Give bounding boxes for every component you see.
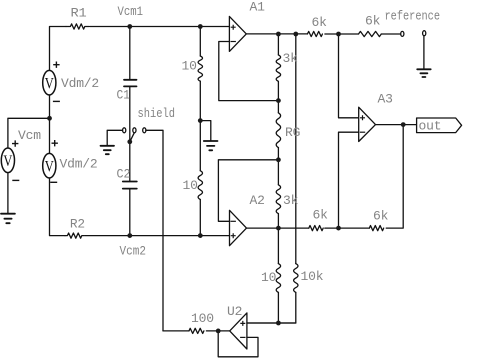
svg-text:6k: 6k [313, 208, 329, 223]
node bottom-rail 10-column junction dot [198, 233, 203, 238]
wire top rail to A1 + input [90, 26, 229, 28]
wire bottom rail to A2 + input [85, 235, 230, 237]
node Vcm2 junction dot [127, 233, 132, 238]
A3 plus input mark [360, 115, 365, 120]
node A3-plus rail junction dot [336, 32, 341, 37]
wire A3 output [376, 124, 417, 126]
wire U2 output row with 100 [163, 330, 189, 332]
A2 minus input mark [231, 220, 236, 222]
wire 100 to U2 tip [206, 330, 229, 332]
wire 3k to A2 output rail [277, 214, 279, 228]
svg-text:A3: A3 [378, 92, 393, 107]
A2 plus input mark [231, 233, 236, 238]
node A1 feedback junction dot [276, 98, 281, 103]
svg-text:10: 10 [182, 58, 197, 73]
resistor 6k (A1 output) [307, 31, 322, 36]
wire A2 feedback loop [218, 160, 278, 222]
wire RG to lower node [277, 148, 279, 185]
op-amp U2 (left pointing) [230, 313, 247, 349]
ground (shield switch) [101, 146, 115, 154]
svg-text:Vcm: Vcm [18, 128, 41, 143]
node 10-column top junction dot [198, 24, 203, 29]
node A2-output 3k junction dot [276, 226, 281, 231]
wire to A3 plus node [325, 33, 359, 35]
A3 minus input mark [360, 131, 365, 133]
wire to reference terminal [381, 33, 400, 35]
resistor 10 (upper left) [198, 56, 202, 81]
svg-text:10: 10 [261, 270, 276, 285]
wire C2 to bottom rail [129, 190, 131, 236]
wire second column (A1 out to U2) top [295, 34, 297, 264]
node U2 output junction dot [216, 329, 221, 334]
wire A3 plus input column [339, 34, 359, 118]
resistor R1 [66, 24, 89, 29]
svg-text:RG: RG [285, 125, 300, 140]
svg-text:Vdm/2: Vdm/2 [60, 156, 98, 171]
polarity - (bottom source) [50, 181, 57, 183]
svg-text:C1: C1 [117, 87, 131, 102]
wire 6k to A3 minus node [325, 227, 370, 229]
capacitor C2 [123, 182, 137, 189]
wire switch right to shield drive column [146, 130, 163, 331]
wire ground branch of 10 column [200, 121, 211, 141]
A1 minus input mark [231, 41, 236, 43]
polarity + (Vcm source) [12, 140, 18, 146]
wire U2 plus input stub [247, 322, 296, 324]
node A1-output 3k junction dot [276, 32, 281, 37]
wire bottom 10 to U2 plus wire [277, 292, 279, 323]
resistor 6k (to reference) [359, 31, 382, 36]
wire C1 to switch junction to C2 [129, 87, 131, 181]
resistor 6k (A3 feedback) [369, 226, 383, 231]
wire source1 to junction [49, 95, 51, 118]
wire Vcm branch horizontal [8, 118, 50, 148]
wire switch middle to capacitor column [130, 133, 134, 142]
svg-text:Vcm1: Vcm1 [118, 4, 144, 19]
ground (Vcm) [1, 214, 15, 224]
svg-text:A2: A2 [250, 193, 265, 208]
svg-text:100: 100 [191, 311, 214, 326]
capacitor C1 [124, 80, 137, 87]
wire A2 output rail [247, 227, 309, 229]
node source junction dot [47, 116, 52, 121]
svg-text:3k: 3k [283, 193, 299, 208]
ground (reference) [417, 69, 431, 77]
shield switch middle contact [133, 128, 136, 133]
resistor 3k (A2) [276, 185, 280, 214]
node switch-capacitor junction dot [127, 139, 132, 144]
svg-text:V: V [3, 153, 12, 170]
node A3 output junction dot [401, 122, 406, 127]
shield switch left contact [123, 128, 126, 133]
svg-text:10k: 10k [301, 269, 324, 284]
U2 minus input mark [240, 336, 245, 338]
node Vcm1 junction dot [127, 24, 132, 29]
resistor 6k (A2 output) [309, 226, 323, 231]
svg-text:reference: reference [385, 9, 441, 24]
svg-text:C2: C2 [117, 166, 131, 181]
wire reference to ground [423, 36, 425, 69]
op-amp A3 [359, 107, 376, 141]
voltage source Vdm/2 (bottom) [43, 153, 56, 178]
wire U2 feedback loop [218, 331, 258, 357]
voltage source Vdm/2 (top) [43, 70, 56, 95]
terminal circle (reference) [423, 31, 426, 36]
op-amp A1 [229, 16, 246, 51]
wire A2 output node down to 10 [277, 228, 279, 264]
wire source2 to bottom rail [50, 178, 66, 236]
wire 3k to RG node [277, 82, 279, 113]
svg-text:Vdm/2: Vdm/2 [61, 76, 99, 91]
polarity + (bottom source) [52, 140, 58, 146]
svg-text:out: out [419, 118, 442, 133]
A1 plus input mark [231, 25, 236, 30]
node RG-3k A2 feedback junction dot [276, 157, 281, 162]
wire 10-resistor column top [199, 27, 201, 57]
wire feedback column segment A1 3k top [277, 34, 279, 55]
svg-text:R1: R1 [71, 6, 87, 21]
svg-text:shield: shield [138, 106, 176, 121]
ground (10 column) [204, 141, 218, 150]
svg-text:U2: U2 [227, 304, 242, 319]
svg-text:3k: 3k [283, 51, 299, 66]
U2 plus input mark [240, 321, 245, 326]
resistor 10 (lower left) [198, 171, 202, 200]
op-amp A2 [230, 210, 247, 245]
node U2 plus-wire junction dot [276, 321, 281, 326]
wire 10k to U2 plus input [247, 292, 296, 323]
node 10-column ground junction dot [198, 118, 203, 123]
wire A1 output rail [246, 33, 307, 35]
node A1-output 10k-column junction dot [293, 32, 298, 37]
terminal circle (6k end) [401, 31, 404, 36]
svg-text:6k: 6k [365, 14, 381, 29]
svg-text:R2: R2 [70, 217, 85, 232]
svg-text:10: 10 [183, 178, 198, 193]
wire top-left column [50, 27, 67, 71]
node A3-minus rail junction dot [336, 226, 341, 231]
wire switch left to ground [107, 130, 122, 145]
polarity - (Vcm source) [12, 179, 19, 181]
polarity + (top source) [53, 62, 59, 68]
svg-text:V: V [45, 158, 54, 175]
shield switch right contact [143, 128, 146, 133]
svg-text:6k: 6k [373, 208, 389, 223]
svg-text:V: V [45, 75, 54, 92]
svg-text:A1: A1 [250, 0, 266, 15]
wire A3 minus input column [339, 132, 359, 228]
resistor 3k (A1) [276, 55, 280, 81]
out flag [417, 118, 462, 133]
wire junction down to source2 [49, 118, 51, 153]
resistor 10k [294, 264, 298, 293]
wire Vcm source to ground [7, 173, 9, 213]
resistor 100 [189, 328, 204, 333]
wire A1 feedback (minus input loop) [219, 42, 279, 101]
resistor 10 (bottom) [276, 264, 280, 293]
resistor R2 [65, 233, 84, 238]
resistor RG [276, 113, 280, 148]
wire capacitor column C1 top [129, 27, 131, 80]
svg-text:Vcm2: Vcm2 [120, 243, 147, 258]
wire feedback 6k to output column [386, 125, 403, 229]
wire between 10 resistors [199, 81, 201, 171]
voltage source Vcm [1, 148, 14, 173]
polarity - (top source) [53, 100, 60, 102]
svg-text:6k: 6k [312, 15, 328, 30]
wire lower 10 to bottom rail [199, 200, 201, 236]
